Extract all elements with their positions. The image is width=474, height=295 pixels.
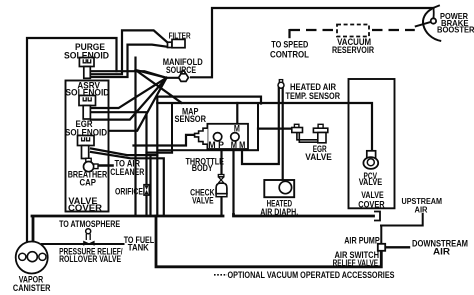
wire purge solenoid to vapor canister (top-left long loop)	[27, 38, 117, 253]
MAP sensor box	[172, 103, 258, 150]
ASRV solenoid symbol	[79, 96, 96, 120]
valve cover box (right)	[349, 79, 395, 208]
heated air temp sensor	[278, 80, 284, 89]
wire throttle body M port stub	[236, 103, 238, 124]
bracket connector below valve cover	[374, 212, 380, 221]
dashed vacuum line to speed control / reservoir / booster	[290, 25, 415, 39]
wire MAP box left edge down to orifice line	[147, 150, 173, 152]
svg-text:M P: M P	[208, 140, 224, 150]
svg-text:CANISTER: CANISTER	[13, 283, 51, 293]
MAP box bottom extension	[157, 149, 172, 151]
dotted lead before optional text	[214, 274, 227, 276]
svg-text:CAP: CAP	[80, 177, 97, 187]
svg-text:TEMP. SENSOR: TEMP. SENSOR	[286, 91, 341, 101]
wire EGR solenoid to MAP sensor (A-line)	[91, 149, 157, 156]
wire throttle body to check valve	[220, 149, 222, 175]
PCV valve	[363, 151, 378, 169]
wire downstream air	[385, 246, 409, 248]
EGR solenoid symbol	[78, 136, 95, 159]
svg-text:SOLENOID: SOLENOID	[65, 87, 109, 97]
svg-text:AIR: AIR	[415, 205, 429, 215]
EGR valve (right)	[292, 124, 328, 143]
wire junction diagonal to MAP sensor top	[136, 70, 182, 103]
svg-text:SOLENOID: SOLENOID	[65, 127, 107, 137]
manifold source hexagon	[179, 71, 189, 82]
heated air diaphragm	[264, 180, 294, 197]
check valve	[216, 175, 227, 197]
wire pressure relief line to fuel tank	[43, 243, 124, 245]
svg-text:FILTER: FILTER	[169, 31, 192, 41]
throttle body	[207, 124, 248, 149]
wire purge solenoid to manifold source (top port)	[90, 71, 179, 78]
breather cap	[84, 158, 99, 171]
orifice symbol	[144, 185, 149, 196]
pressure relief / rollover valve bowtie	[83, 241, 94, 246]
svg-text:TO ATMOSPHERE: TO ATMOSPHERE	[59, 219, 120, 229]
svg-text:SOLENOID: SOLENOID	[64, 49, 109, 60]
svg-text:RESERVOIR: RESERVOIR	[332, 45, 374, 55]
svg-text:ROLLOVER VALVE: ROLLOVER VALVE	[59, 254, 121, 264]
wire junction diagonal to fan point	[136, 70, 167, 78]
wire air switch valve up to bracket junction	[381, 214, 423, 244]
svg-text:OPTIONAL VACUUM OPERATED ACCES: OPTIONAL VACUUM OPERATED ACCESSORIES	[228, 270, 395, 280]
wire EGR solenoid second port down to main hose	[91, 152, 164, 216]
hose vapor canister up and right (main hose left segment)	[32, 216, 223, 252]
hose branch down to optional accessories line	[156, 216, 381, 267]
wire breather cap pointer to air cleaner	[98, 164, 113, 167]
valve cover box (left)	[66, 81, 109, 212]
svg-text:AIR PUMP: AIR PUMP	[344, 236, 380, 246]
power brake booster	[415, 9, 441, 41]
wire purge solenoid to filter (lower)	[90, 45, 168, 77]
wire A-line vertical through to main hose	[157, 97, 261, 216]
svg-text:BOOSTER: BOOSTER	[437, 25, 474, 35]
wire orifice to main hose	[145, 196, 147, 216]
wire ASRV solenoid to manifold source (fan B)	[91, 78, 167, 108]
wire EGR branch down to main hose	[149, 155, 151, 215]
purge solenoid symbol	[79, 58, 94, 79]
svg-text:TANK: TANK	[128, 243, 149, 253]
svg-text:COVER: COVER	[358, 199, 385, 209]
svg-text:CONTROL: CONTROL	[270, 49, 309, 60]
svg-text:COVER: COVER	[68, 203, 102, 213]
svg-text:AIR DIAPH.: AIR DIAPH.	[260, 207, 298, 217]
vapor canister	[16, 242, 48, 274]
svg-text:SENSOR: SENSOR	[175, 114, 207, 124]
wire MAP sensor top line to PCV (B-line)	[157, 103, 372, 151]
svg-text:VALVE: VALVE	[359, 177, 383, 187]
hose right segment from throttle body to air pump bracket	[234, 215, 374, 217]
wire purge solenoid to filter (upper)	[90, 30, 168, 74]
wire throttle body to heated air temp sensor (U-wire)	[242, 88, 279, 164]
svg-text:SOURCE: SOURCE	[166, 64, 196, 75]
svg-text:AIR: AIR	[433, 247, 450, 257]
wire manifold fan A (purge bundle to manifold source, with long vertical)	[134, 58, 136, 216]
wire canister right nipple elbow	[41, 244, 43, 253]
wire ASRV solenoid to orifice	[91, 112, 147, 184]
wire drop to booster nipple	[432, 8, 434, 18]
wire MAP box to EGR valve	[258, 128, 292, 130]
svg-text:BODY: BODY	[192, 163, 213, 173]
wire ASRV solenoid to manifold source (fan C)	[91, 78, 167, 120]
tick at line end	[433, 6, 439, 8]
svg-text:M: M	[234, 124, 240, 134]
svg-text:ORIFICE: ORIFICE	[115, 187, 143, 197]
air switch relief valve square	[378, 244, 385, 251]
top manifold line to power brake booster	[191, 6, 439, 78]
vent to atmosphere symbol	[86, 229, 91, 240]
svg-text:VALVE: VALVE	[192, 196, 214, 206]
wire EGR solenoid to manifold source (fan D)	[110, 78, 167, 131]
vacuum reservoir dashed box	[337, 25, 369, 37]
wire manifold source to top right	[191, 8, 434, 77]
svg-text:M M: M M	[231, 140, 246, 150]
wire check valve to main hose	[220, 197, 222, 215]
svg-text:CLEANER: CLEANER	[110, 167, 144, 177]
svg-text:VALVE: VALVE	[305, 152, 332, 162]
wire throttle body down to air hose	[232, 149, 234, 215]
svg-text:RELIEF VALVE: RELIEF VALVE	[333, 258, 379, 268]
filter	[168, 39, 186, 47]
MAP sensor connector plug	[195, 128, 208, 144]
wire MAP connector to left bundle	[134, 135, 195, 146]
wire temp sensor to heated air diaphragm	[282, 88, 284, 180]
